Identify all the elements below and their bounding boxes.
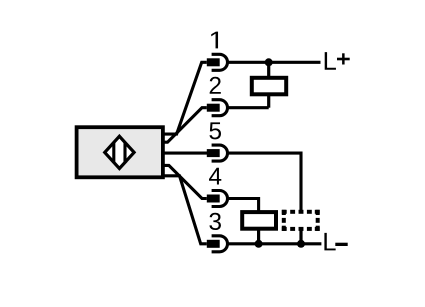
junction node load2/L- (255, 240, 263, 248)
pin number 4 (209, 168, 221, 185)
wire pin2 (sensor to connector 2) (163, 108, 207, 143)
pin number 3 (209, 213, 221, 230)
sensor body S1 (77, 127, 163, 177)
wire load2 bottom lead (257, 229, 260, 244)
junction node on L+ rail (265, 58, 273, 66)
wire pin2 run (227, 106, 269, 109)
label L- (324, 233, 347, 251)
wire load1 bottom lead (267, 94, 270, 107)
wire pin3 (sensor to connector 3) (163, 176, 207, 244)
wire pin1 (sensor to connector 1) (163, 62, 207, 134)
load L2 (242, 212, 276, 229)
sensor symbol diamond (105, 136, 134, 168)
load L1 (252, 78, 286, 95)
wire L+ rail (pin1 to L+) (227, 61, 321, 64)
pin number 2 (210, 77, 221, 94)
pin number 5 (209, 122, 221, 139)
wire L- rail (pin3 to L-) (227, 242, 321, 245)
wire pin5 run (to dashed load) (227, 153, 301, 210)
connector pin 5 (207, 145, 228, 161)
junction node dashed-load/L- (297, 240, 305, 248)
label L+ (325, 52, 350, 70)
wire dashed-load bottom lead (299, 230, 302, 244)
wire pin4 (sensor to connector 4) (163, 165, 207, 198)
connector pin 1 (207, 54, 228, 70)
wire load1 top lead (267, 62, 270, 78)
pin number 1 (211, 32, 218, 49)
wire pin5 (sensor to connector 5) (163, 152, 207, 155)
connector pin 4 (207, 191, 228, 207)
connector pin 2 (207, 100, 228, 116)
optional load (dashed box) (282, 210, 320, 231)
connector pin 3 (207, 236, 228, 252)
wire pin4 run (to load2) (227, 199, 259, 213)
